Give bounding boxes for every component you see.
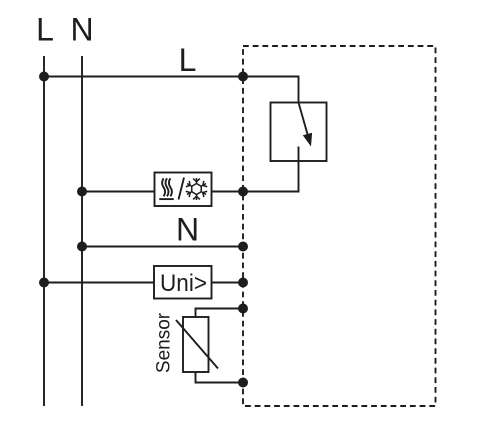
wire L vertical supply line xyxy=(43,56,45,406)
separator slash xyxy=(179,178,185,200)
junction dot L line Uni wire xyxy=(39,278,49,288)
wire L feed to device xyxy=(44,76,243,78)
wire Uni input xyxy=(44,282,243,284)
junction dot Uni wire at device xyxy=(238,278,248,288)
svg-text:N: N xyxy=(176,212,199,248)
junction dot L line top xyxy=(39,72,49,82)
heating symbol wavy line 1 xyxy=(162,178,165,196)
junction dot N line heat wire xyxy=(77,187,87,197)
sensor diagonal stroke xyxy=(176,320,218,369)
cooling snowflake symbol xyxy=(185,178,207,200)
device outline dashed box xyxy=(243,46,436,406)
wire N feed to device xyxy=(82,246,243,248)
junction dot L wire at device xyxy=(238,72,248,82)
heating symbol wavy line 2 xyxy=(166,178,169,196)
relay switch arm xyxy=(299,103,309,137)
junction dot sensor bottom at device xyxy=(238,378,248,388)
svg-text:Sensor: Sensor xyxy=(154,312,175,373)
svg-text:Uni>: Uni> xyxy=(160,270,207,297)
wire N vertical supply line xyxy=(81,56,83,406)
sensor thermistor box xyxy=(183,317,209,372)
junction dot N wire at device xyxy=(238,242,248,252)
junction dot heat wire at device xyxy=(238,187,248,197)
wire heating load line xyxy=(82,191,243,193)
heating symbol wavy line 3 xyxy=(169,178,172,196)
heating symbol underline xyxy=(159,198,174,200)
Uni input box xyxy=(154,266,212,299)
junction dot sensor top at device xyxy=(238,304,248,314)
wire sensor bottom xyxy=(196,372,244,383)
svg-text:L: L xyxy=(36,12,54,48)
junction dot N line N wire xyxy=(77,242,87,252)
relay K1 box xyxy=(271,103,327,162)
heating/cooling load box xyxy=(155,173,212,207)
wire relay feed top xyxy=(243,77,299,103)
svg-text:N: N xyxy=(70,12,93,48)
svg-text:L: L xyxy=(179,42,197,78)
relay switch arrowhead xyxy=(303,133,312,147)
wire relay output to load xyxy=(243,147,299,192)
wire sensor top xyxy=(196,309,244,318)
